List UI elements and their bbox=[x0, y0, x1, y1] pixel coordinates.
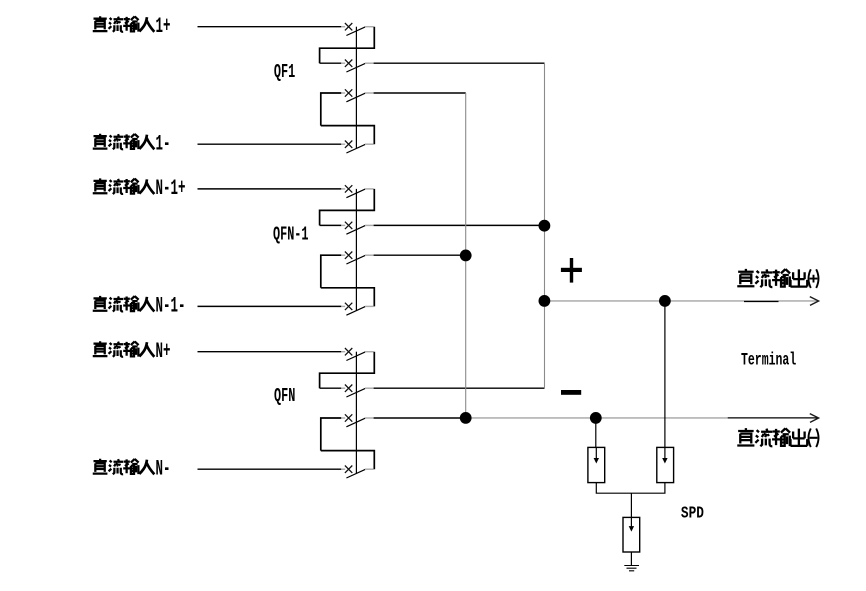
label DC input 1+ bbox=[93, 15, 171, 40]
+ bus vertical bbox=[544, 63, 546, 388]
wire QF1 pole2 output to + bus bbox=[374, 62, 545, 64]
wire QF1 pole3 output to - bus bbox=[374, 92, 466, 94]
label DC input N+ bbox=[93, 340, 171, 365]
label DC output (-) bbox=[737, 428, 818, 447]
SPD left branch wire from - line bbox=[595, 418, 597, 448]
svg-text:QF1: QF1 bbox=[274, 61, 295, 83]
svg-text:QFN-1: QFN-1 bbox=[273, 224, 308, 246]
breaker QFN bbox=[198, 348, 375, 478]
svg-text:QFN: QFN bbox=[274, 385, 295, 407]
junction dot + line SPD tap bbox=[659, 295, 671, 307]
junction dot + bus corner bbox=[539, 295, 551, 307]
wire QFN-1 pole3 output bbox=[374, 254, 466, 256]
SPD center box arrow bbox=[629, 526, 634, 532]
plus symbol bbox=[561, 268, 582, 272]
junction dot - line SPD tap bbox=[590, 412, 602, 424]
- output arrowhead bbox=[810, 414, 819, 423]
svg-text:N-1-: N-1- bbox=[156, 294, 186, 319]
junction dot QFN-1 pole2 / + bus bbox=[539, 220, 551, 232]
svg-text:Terminal: Terminal bbox=[741, 351, 796, 370]
svg-text:SPD: SPD bbox=[681, 503, 704, 523]
DC output - line black part bbox=[728, 417, 818, 419]
DC output - line gray part bbox=[466, 417, 728, 419]
wire QFN-1 pole2 output bbox=[374, 224, 545, 226]
+ output arrowhead bbox=[810, 297, 819, 306]
ground stem bbox=[630, 552, 632, 566]
label DC input N-1+ bbox=[93, 177, 186, 202]
svg-text:N-1+: N-1+ bbox=[156, 177, 186, 202]
SPD join wires below boxes bbox=[596, 483, 665, 494]
SPD center box bbox=[623, 517, 640, 552]
SPD right box arrow bbox=[664, 447, 666, 458]
label DC output (+) bbox=[737, 269, 818, 288]
SPD left box bbox=[588, 447, 605, 482]
label DC input 1- bbox=[93, 132, 171, 157]
svg-text:1-: 1- bbox=[156, 132, 171, 157]
wire QFN pole2 output bbox=[374, 387, 545, 389]
black overlay segment on + line bbox=[744, 301, 779, 303]
breaker QFN-1 bbox=[198, 185, 375, 315]
ground bbox=[624, 566, 639, 571]
svg-text:1+: 1+ bbox=[156, 15, 171, 40]
SPD left box arrow bbox=[595, 447, 597, 458]
junction dot - bus / - line bbox=[460, 412, 472, 424]
label DC input N- bbox=[93, 457, 171, 482]
SPD center feed wire bbox=[630, 493, 632, 527]
SPD right branch wire from + line bbox=[664, 301, 666, 448]
DC output + line bbox=[545, 300, 819, 302]
minus symbol bbox=[561, 390, 581, 395]
wire QFN pole3 output bbox=[374, 417, 466, 419]
SPD right box bbox=[657, 447, 674, 482]
- bus vertical bbox=[465, 93, 467, 418]
svg-text:N-: N- bbox=[156, 457, 171, 482]
label DC input N-1- bbox=[93, 294, 186, 319]
junction dot QFN-1 pole3 / - bus bbox=[460, 250, 472, 262]
svg-text:N+: N+ bbox=[156, 340, 171, 365]
breaker QF1 bbox=[198, 23, 375, 153]
